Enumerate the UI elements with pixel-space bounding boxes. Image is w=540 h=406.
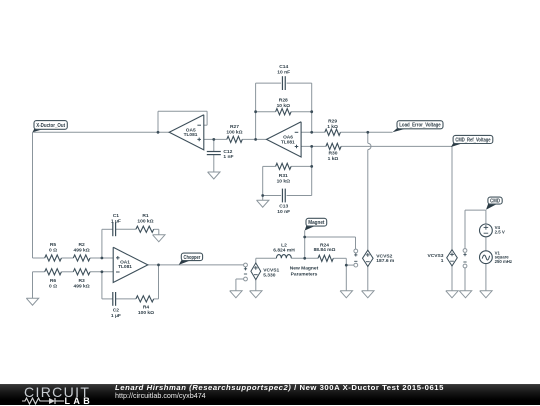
svg-text:R1: R1: [142, 213, 149, 219]
svg-text:Parameters: Parameters: [291, 271, 318, 277]
svg-text:TL081: TL081: [281, 139, 295, 145]
svg-text:250 mHz: 250 mHz: [495, 259, 512, 264]
svg-text:R30: R30: [329, 150, 338, 156]
svg-text:CMD_Ref_Voltage: CMD_Ref_Voltage: [455, 137, 490, 143]
svg-text:Load_Error_Voltage: Load_Error_Voltage: [399, 123, 441, 129]
svg-text:499 kΩ: 499 kΩ: [74, 283, 90, 289]
svg-text:499 kΩ: 499 kΩ: [74, 248, 90, 254]
svg-text:C14: C14: [279, 64, 288, 70]
svg-text:New Magnet: New Magnet: [290, 266, 319, 272]
svg-text:1 nF: 1 nF: [223, 154, 233, 160]
svg-text:R31: R31: [279, 173, 288, 179]
svg-text:Chopper: Chopper: [184, 255, 201, 261]
svg-text:VCVS1: VCVS1: [263, 268, 279, 274]
svg-text:88.84 mΩ: 88.84 mΩ: [314, 247, 336, 253]
svg-text:10 nF: 10 nF: [277, 209, 290, 215]
svg-text:100 kΩ: 100 kΩ: [226, 129, 242, 135]
svg-text:0 Ω: 0 Ω: [49, 248, 57, 254]
svg-text:0 Ω: 0 Ω: [49, 283, 57, 289]
svg-text:R4: R4: [143, 304, 150, 310]
svg-text:1 kΩ: 1 kΩ: [327, 124, 338, 130]
svg-text:1 kΩ: 1 kΩ: [328, 156, 339, 162]
svg-text:6.824 mH: 6.824 mH: [273, 247, 295, 253]
svg-text:1 μF: 1 μF: [111, 313, 121, 319]
svg-text:Magnet: Magnet: [308, 220, 324, 226]
svg-text:1 μF: 1 μF: [111, 219, 121, 225]
svg-text:2.5 V: 2.5 V: [495, 230, 505, 235]
svg-text:R5: R5: [50, 242, 57, 248]
svg-text:10 nF: 10 nF: [277, 69, 290, 75]
svg-text:R27: R27: [230, 124, 239, 130]
svg-text:R3: R3: [78, 278, 85, 284]
svg-text:R29: R29: [328, 118, 337, 124]
svg-text:100 kΩ: 100 kΩ: [137, 219, 153, 225]
svg-text:10 kΩ: 10 kΩ: [277, 179, 291, 185]
svg-text:TL081: TL081: [184, 132, 198, 138]
svg-text:C1: C1: [113, 213, 120, 219]
svg-text:X-Ductor_Out: X-Ductor_Out: [36, 123, 65, 129]
svg-text:5.330: 5.330: [263, 273, 276, 279]
svg-text:CMD: CMD: [490, 199, 500, 205]
svg-text:C13: C13: [279, 203, 288, 209]
svg-text:C2: C2: [113, 307, 120, 313]
svg-text:R6: R6: [50, 278, 57, 284]
svg-text:100 kΩ: 100 kΩ: [138, 310, 154, 316]
svg-text:10 kΩ: 10 kΩ: [277, 103, 291, 109]
svg-text:TL081: TL081: [118, 264, 132, 270]
svg-text:C12: C12: [223, 149, 232, 155]
svg-text:187.6 m: 187.6 m: [376, 258, 395, 264]
svg-text:1: 1: [441, 258, 444, 264]
svg-text:R28: R28: [279, 97, 288, 103]
svg-text:R2: R2: [78, 242, 85, 248]
